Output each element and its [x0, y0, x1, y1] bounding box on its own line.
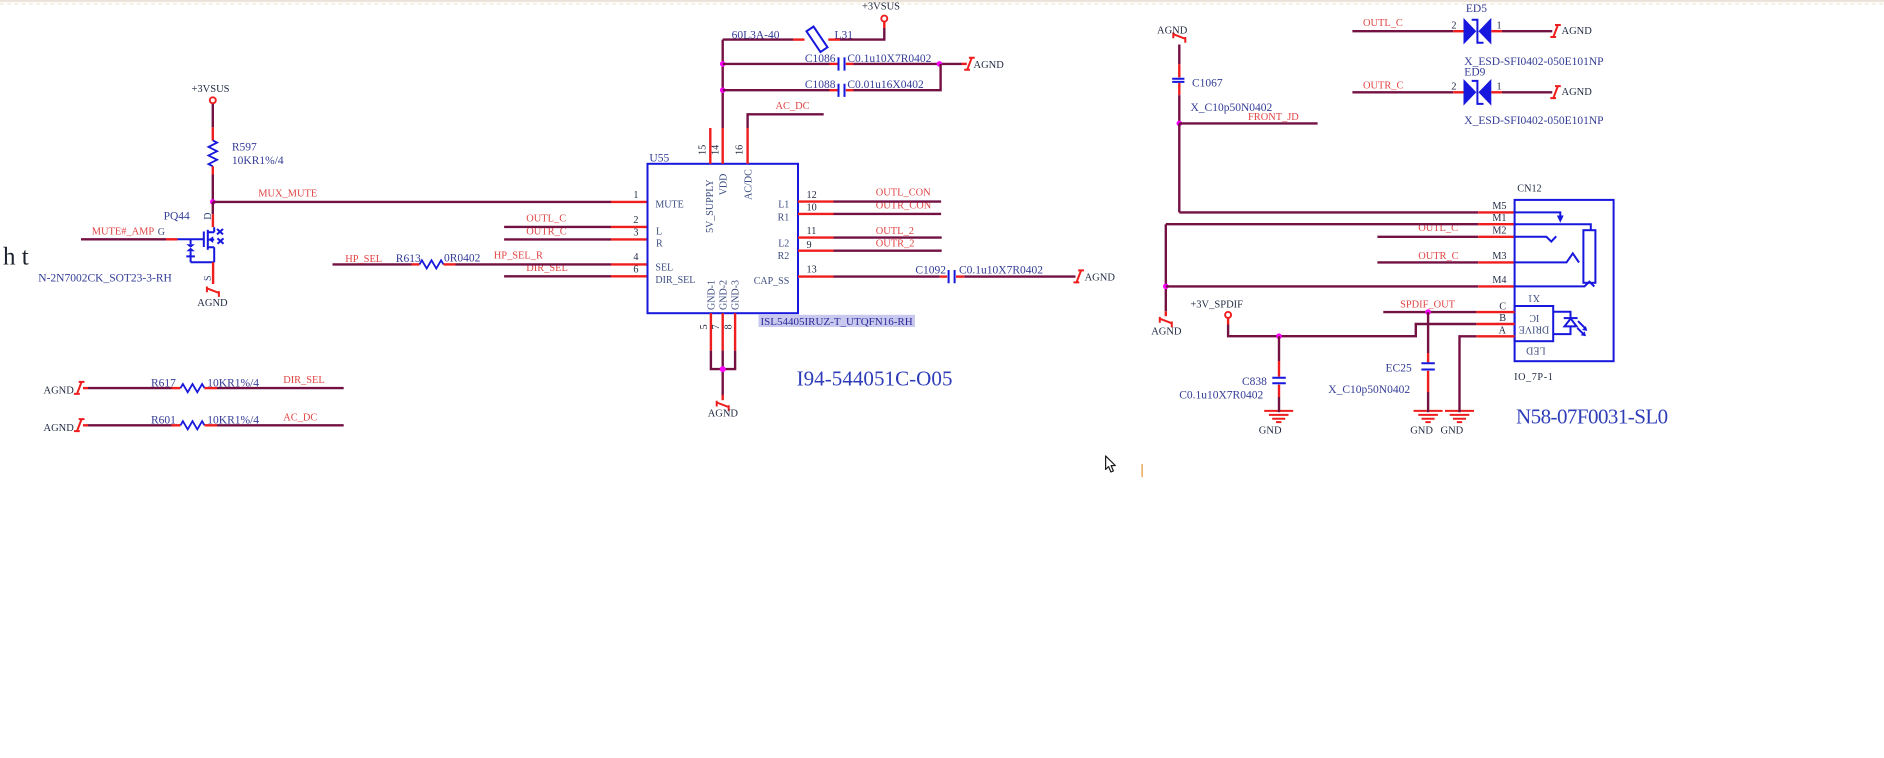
connector inner IC box: [1515, 306, 1554, 341]
svg-text:GND-2: GND-2: [718, 280, 729, 310]
ground GND (C838): [1264, 411, 1293, 422]
svg-text:M3: M3: [1492, 251, 1506, 262]
wire M1 row: [1166, 223, 1515, 225]
svg-text:15: 15: [698, 145, 709, 155]
wire C1086 row right: [846, 63, 967, 65]
jack M1 contact to sleeve: [1515, 224, 1591, 230]
pin 16 stub AC/DC: [735, 128, 748, 164]
capacitor C1067: [1172, 79, 1184, 82]
svg-text:OUTR_2: OUTR_2: [876, 239, 915, 250]
pin B stub: [1476, 313, 1514, 324]
svg-text:R613: R613: [396, 253, 421, 265]
svg-text:OUTR_C: OUTR_C: [1418, 251, 1458, 262]
wire M1/M4 vertical to AGND: [1165, 224, 1167, 316]
jack M3 contact: [1515, 253, 1579, 262]
svg-text:DIR_SEL: DIR_SEL: [283, 375, 325, 386]
svg-text:AGND: AGND: [974, 60, 1005, 71]
svg-text:FRONT_JD: FRONT_JD: [1248, 112, 1299, 123]
svg-text:11: 11: [807, 226, 817, 237]
ground AGND (R601 row): [74, 419, 85, 431]
diode ED9 TVS: [1464, 79, 1492, 106]
svg-text:60L3A-40: 60L3A-40: [732, 29, 780, 41]
svg-text:C1086: C1086: [805, 53, 836, 65]
wire C1088 row right to junction: [846, 64, 941, 90]
op-amp U55 box: [648, 164, 799, 313]
svg-text:DIR_SEL: DIR_SEL: [655, 275, 695, 286]
svg-text:+3VSUS: +3VSUS: [191, 84, 229, 95]
svg-text:PQ44: PQ44: [164, 211, 190, 223]
ground AGND (PQ44 source): [207, 287, 219, 297]
svg-text:EC25: EC25: [1386, 363, 1412, 375]
svg-text:M2: M2: [1492, 226, 1506, 237]
svg-text:OUTL_CON: OUTL_CON: [876, 187, 931, 198]
svg-text:h t: h t: [3, 244, 29, 271]
ground AGND (R617 row): [74, 382, 85, 394]
wire L pin2: [504, 226, 647, 228]
jack M4 contact: [1515, 282, 1595, 287]
faint dashed strip: [0, 3, 1884, 5]
wire C838 branch: [1278, 336, 1280, 377]
svg-text:R2: R2: [778, 251, 790, 262]
pin 11 wire OUTL_2: [798, 226, 942, 238]
svg-text:13: 13: [807, 265, 817, 276]
svg-text:4: 4: [633, 252, 638, 263]
svg-text:+3VSUS: +3VSUS: [862, 2, 900, 13]
svg-text:GND: GND: [1259, 426, 1282, 437]
pin 15 stub 5V_SUPPLY: [698, 128, 711, 164]
svg-text:X_C10p50N0402: X_C10p50N0402: [1328, 384, 1410, 396]
svg-text:AGND: AGND: [1085, 272, 1116, 283]
svg-text:OUTL_C: OUTL_C: [526, 214, 566, 225]
wire R601 row left: [83, 424, 181, 426]
capacitor C1088: [839, 84, 845, 97]
wire FRONT_JD: [1179, 122, 1317, 124]
svg-text:IO_7P-1: IO_7P-1: [1514, 372, 1553, 383]
capacitor C1092: [949, 270, 955, 283]
svg-text:6: 6: [633, 265, 638, 276]
text caret (orange): [1141, 464, 1143, 477]
svg-text:0R0402: 0R0402: [444, 252, 481, 264]
wire MUTE#_AMP: [81, 238, 178, 240]
svg-text:R617: R617: [151, 377, 176, 389]
resistor R617: [181, 384, 205, 392]
wire HP_SEL to R613: [333, 263, 420, 265]
pin 10 wire OUTR_CON: [798, 202, 941, 214]
jack M2 contact: [1515, 236, 1557, 241]
ground AGND (top right): [1173, 32, 1185, 42]
inductor L31 bead: [806, 27, 827, 52]
svg-text:D: D: [203, 213, 214, 220]
ground AGND (U55): [717, 401, 729, 411]
wire C1088 row left: [723, 89, 838, 91]
svg-text:CAP_SS: CAP_SS: [754, 276, 790, 287]
svg-text:L2: L2: [778, 238, 789, 249]
capacitor C1086: [839, 57, 845, 70]
svg-text:M5: M5: [1492, 201, 1506, 212]
svg-text:IC: IC: [1529, 312, 1539, 323]
power port +3V_SPDIF: [1190, 300, 1243, 318]
svg-text:GND-1: GND-1: [707, 280, 718, 310]
ground GND (pin A): [1445, 411, 1474, 422]
svg-text:C1067: C1067: [1192, 77, 1223, 89]
pin 13 wire CAP_SS: [798, 265, 947, 277]
wire MUX_MUTE: [213, 201, 648, 203]
svg-text:MUTE#_AMP: MUTE#_AMP: [92, 227, 155, 238]
pin 7 stub GND-2: [711, 313, 723, 350]
mouse cursor: [1106, 456, 1116, 472]
svg-text:I94-544051C-O05: I94-544051C-O05: [797, 367, 953, 391]
svg-text:GND: GND: [1410, 426, 1433, 437]
wire AGND to C1067: [1178, 45, 1180, 78]
wire C1086 row left: [723, 63, 838, 65]
wire vertical to M5: [1178, 123, 1180, 212]
wire +3VSUS to R597: [212, 104, 214, 141]
node SPDIF/EC25 junction: [1425, 309, 1431, 315]
svg-text:2: 2: [633, 215, 638, 226]
node C838 junction: [1276, 333, 1282, 339]
svg-text:C1092: C1092: [915, 265, 946, 277]
power port +3VSUS (top): [862, 2, 900, 22]
connector CN12 box: [1515, 200, 1614, 361]
svg-text:VDD: VDD: [718, 174, 729, 196]
resistor R601: [181, 421, 205, 429]
node M4 junction: [1163, 284, 1169, 290]
svg-text:AGND: AGND: [44, 423, 75, 434]
wire C838 to GND: [1278, 385, 1280, 413]
node VDD/C1086 junction: [720, 61, 726, 67]
node C1086/C1088 right junction: [937, 61, 943, 67]
label ISL54405IRUZ-T_UTQFN16-RH highlighted: [759, 315, 916, 328]
svg-text:2: 2: [1451, 82, 1456, 93]
ground AGND (M1/M4): [1160, 317, 1172, 327]
resistor R613: [420, 260, 444, 268]
svg-text:10: 10: [807, 202, 817, 213]
svg-text:CN12: CN12: [1517, 184, 1541, 195]
svg-text:L: L: [656, 226, 662, 237]
svg-text:A: A: [1499, 326, 1507, 337]
svg-text:10KR1%/4: 10KR1%/4: [232, 155, 284, 167]
svg-text:12: 12: [807, 190, 817, 201]
svg-text:OUTL_C: OUTL_C: [1363, 18, 1403, 29]
wire DIR_SEL pin6: [504, 275, 647, 277]
wire OUTR_C to ED9: [1352, 91, 1463, 93]
svg-text:N58-07F0031-SL0: N58-07F0031-SL0: [1516, 405, 1668, 429]
ground AGND (ED5): [1550, 25, 1561, 37]
ground AGND (C1092): [1074, 270, 1085, 282]
svg-text:AGND: AGND: [1562, 26, 1593, 37]
svg-text:R597: R597: [232, 141, 257, 153]
pin 12 wire OUTL_CON: [798, 190, 941, 202]
wire GND pins join: [711, 351, 735, 401]
svg-text:1: 1: [633, 190, 638, 201]
svg-text:LED: LED: [1526, 345, 1545, 356]
svg-text:ISL54405IRUZ-T_UTQFN16-RH: ISL54405IRUZ-T_UTQFN16-RH: [761, 316, 913, 328]
svg-text:GND: GND: [1441, 426, 1464, 437]
svg-text:N-2N7002CK_SOT23-3-RH: N-2N7002CK_SOT23-3-RH: [38, 273, 172, 285]
wire +3V_SPDIF to pin B: [1228, 318, 1476, 336]
capacitor C838: [1272, 378, 1286, 384]
wire SPDIF_OUT: [1383, 311, 1476, 313]
svg-text:3: 3: [633, 228, 638, 239]
node FRONT_JD junction: [1177, 121, 1183, 127]
pin C stub: [1476, 301, 1514, 312]
pin 9 wire OUTR_2: [798, 240, 942, 251]
wire L31 to +3VSUS: [828, 22, 884, 40]
node GND join junction: [720, 366, 726, 372]
svg-text:SPDIF_OUT: SPDIF_OUT: [1400, 300, 1456, 311]
svg-text:16: 16: [735, 145, 746, 155]
svg-text:L1: L1: [778, 200, 789, 211]
svg-text:+3V_SPDIF: +3V_SPDIF: [1190, 300, 1243, 311]
transistor Q PQ44 body: [178, 227, 224, 262]
svg-text:SEL: SEL: [655, 263, 673, 274]
wire M2 row: [1377, 236, 1514, 238]
wire R pin3: [504, 238, 647, 240]
svg-text:B: B: [1499, 313, 1506, 324]
wire M4 row: [1166, 285, 1515, 287]
ground GND (EC25): [1414, 411, 1443, 422]
ground AGND (C1086 row): [964, 58, 975, 70]
svg-text:14: 14: [711, 145, 722, 155]
svg-text:HP_SEL: HP_SEL: [345, 254, 382, 265]
pin 8 stub GND-3: [724, 313, 736, 350]
svg-text:AGND: AGND: [708, 409, 739, 420]
diode ED5 TVS: [1464, 18, 1492, 45]
wire R617 row left: [83, 387, 181, 389]
svg-text:DRIVE: DRIVE: [1519, 324, 1550, 335]
svg-text:U55: U55: [649, 153, 669, 165]
wire M3 row: [1377, 261, 1514, 263]
resistor R597: [209, 140, 218, 166]
wire R613 to U55 pin4: [444, 263, 648, 265]
svg-text:1: 1: [1497, 20, 1502, 31]
wire L31 row: [723, 38, 805, 40]
LED indicator symbol: [1553, 312, 1587, 337]
svg-text:M1: M1: [1492, 213, 1506, 224]
wire PQ44 source to AGND: [212, 262, 214, 284]
svg-text:R601: R601: [151, 415, 176, 427]
window top border line: [0, 0, 1884, 2]
wire EC25 branch: [1427, 312, 1429, 362]
svg-text:HP_SEL_R: HP_SEL_R: [494, 251, 543, 262]
svg-text:C0.1u10X7R0402: C0.1u10X7R0402: [959, 265, 1043, 277]
capacitor EC25: [1421, 363, 1434, 369]
wire OUTL_C to ED5: [1352, 30, 1463, 32]
svg-text:R: R: [656, 239, 663, 250]
wire EC25 to GND: [1427, 371, 1429, 412]
svg-text:G: G: [158, 227, 165, 238]
wire ED5 to AGND: [1491, 30, 1552, 32]
jack plug body rect: [1583, 230, 1595, 283]
svg-text:8: 8: [724, 324, 735, 329]
svg-text:5V_SUPPLY: 5V_SUPPLY: [705, 179, 716, 232]
label R597 value: [232, 141, 284, 167]
wire C1092 to AGND: [956, 275, 1076, 277]
svg-text:C1088: C1088: [805, 79, 836, 91]
svg-text:AGND: AGND: [1151, 327, 1182, 338]
wire node to PQ44 drain: [212, 202, 214, 227]
svg-text:AC_DC: AC_DC: [283, 413, 317, 424]
node MUX_MUTE junction: [210, 199, 216, 205]
jack M5 contact with arrow: [1515, 212, 1564, 222]
wire M5 row: [1179, 211, 1514, 213]
svg-text:X1: X1: [1528, 292, 1540, 303]
svg-text:GND-3: GND-3: [731, 280, 742, 310]
svg-text:ED5: ED5: [1466, 3, 1487, 15]
svg-text:7: 7: [711, 324, 722, 329]
svg-text:C0.1u10X7R0402: C0.1u10X7R0402: [1179, 390, 1263, 402]
pin A stub: [1476, 326, 1514, 337]
svg-text:MUX_MUTE: MUX_MUTE: [258, 189, 317, 200]
ground AGND (ED9): [1550, 86, 1561, 98]
svg-text:R1: R1: [778, 212, 790, 223]
svg-text:OUTL_2: OUTL_2: [876, 226, 914, 237]
svg-text:C838: C838: [1242, 376, 1267, 388]
svg-text:M4: M4: [1492, 275, 1506, 286]
wire ED9 to AGND: [1491, 91, 1552, 93]
svg-text:AGND: AGND: [44, 386, 75, 397]
wire AC_DC top: [748, 114, 824, 128]
svg-text:C: C: [1499, 301, 1506, 312]
wire R617 row right: [205, 387, 344, 389]
node VDD/C1088 junction: [720, 87, 726, 93]
svg-text:AGND: AGND: [1562, 87, 1593, 98]
svg-text:X_ESD-SFI0402-050E101NP: X_ESD-SFI0402-050E101NP: [1464, 115, 1603, 127]
svg-text:9: 9: [807, 240, 812, 251]
svg-text:AGND: AGND: [1157, 25, 1188, 36]
svg-text:5: 5: [699, 324, 710, 329]
svg-text:MUTE: MUTE: [655, 200, 683, 211]
svg-text:2: 2: [1451, 20, 1456, 31]
svg-text:ED9: ED9: [1464, 67, 1485, 79]
power port +3VSUS (left): [191, 84, 229, 103]
svg-text:1: 1: [1497, 82, 1502, 93]
wire R597 to node: [212, 166, 214, 202]
wire pin A to GND: [1460, 336, 1477, 412]
svg-text:AC/DC: AC/DC: [744, 169, 755, 200]
wire C1067 to FRONT_JD node: [1178, 83, 1180, 123]
pin 5 stub GND-1: [699, 313, 711, 350]
svg-text:AC_DC: AC_DC: [776, 101, 810, 112]
wire R601 row right: [205, 424, 344, 426]
svg-text:OUTR_C: OUTR_C: [1363, 80, 1403, 91]
svg-text:AGND: AGND: [197, 298, 228, 309]
wire VDD vertical from L31: [722, 40, 724, 128]
pin 14 stub VDD: [711, 128, 723, 164]
